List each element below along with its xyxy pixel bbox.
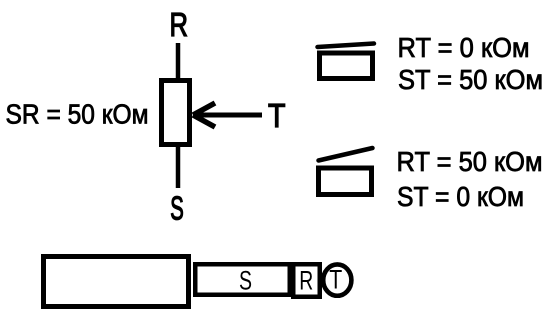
jack plug body (handle) [44, 257, 189, 307]
jack sleeve segment S [195, 264, 290, 295]
wiper position sketch 2 lever line [319, 148, 373, 161]
jack tip circle T [323, 264, 351, 295]
svg-text:R: R [299, 266, 313, 296]
svg-text:RT = 50 кОм: RT = 50 кОм [397, 146, 543, 177]
wiper position sketch 1 lever line [318, 44, 375, 48]
svg-text:S: S [239, 265, 252, 295]
wire bottom lead potentiometer to S [176, 147, 181, 188]
jack ring segment R [293, 264, 320, 297]
potentiometer body SR [162, 81, 190, 145]
svg-text:T: T [268, 97, 286, 134]
svg-text:SR = 50 кОм: SR = 50 кОм [6, 99, 149, 130]
svg-text:ST = 50 кОм: ST = 50 кОм [398, 64, 543, 95]
svg-text:RT = 0 кОм: RT = 0 кОм [398, 32, 530, 63]
svg-text:ST = 0 кОм: ST = 0 кОм [397, 181, 524, 212]
wiper position sketch 1 (wiper at top, closed) box [320, 53, 373, 79]
wire top lead R to potentiometer [176, 43, 181, 80]
svg-text:S: S [170, 189, 184, 226]
wiper arrow shaft (terminal T) [194, 113, 262, 118]
svg-text:T: T [329, 265, 342, 295]
wiper position sketch 2 (wiper raised, open) box [319, 168, 372, 195]
wiper arrowhead [193, 103, 215, 127]
svg-text:R: R [169, 6, 188, 43]
